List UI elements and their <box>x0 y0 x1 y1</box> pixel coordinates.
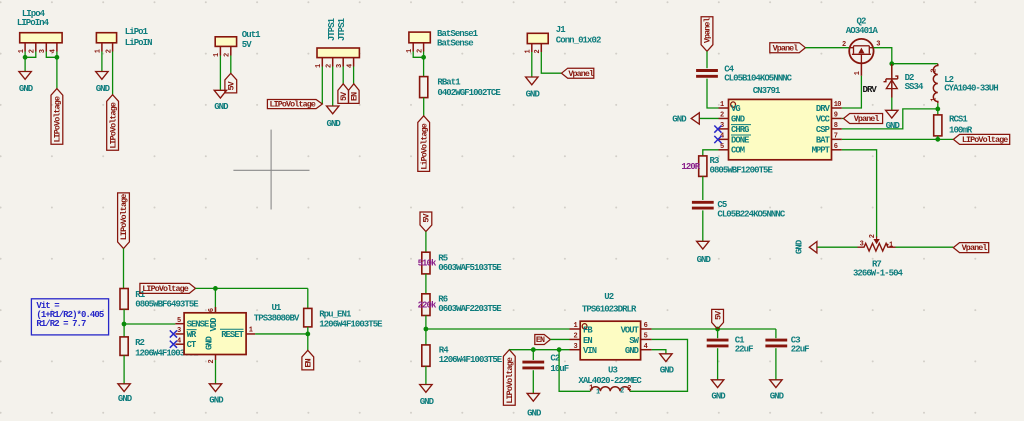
wire JTPS1 pin1 to LIPoVoltage <box>321 67 323 105</box>
cursor crosshair <box>270 130 272 210</box>
svg-text:GND: GND <box>672 114 687 124</box>
ic CN3791 left pins <box>719 107 729 109</box>
svg-text:R4: R4 <box>439 345 449 355</box>
svg-text:3: 3 <box>860 241 864 249</box>
svg-text:CHRG: CHRG <box>731 125 749 135</box>
resistor R4 <box>422 345 430 366</box>
ic U2 left pins <box>570 328 581 330</box>
resistor R2 <box>120 337 128 356</box>
wire Rpu_EN1 to EN label <box>307 327 309 350</box>
svg-text:GND: GND <box>711 391 726 401</box>
svg-text:Vpanel: Vpanel <box>854 114 880 124</box>
connector JTPS1 pins <box>321 58 323 67</box>
wire C1 to GND <box>717 348 719 380</box>
svg-text:22uF: 22uF <box>791 345 809 355</box>
svg-text:6: 6 <box>208 308 216 312</box>
svg-text:GND: GND <box>660 365 675 375</box>
wire C3 to GND <box>775 348 777 380</box>
wire CSP sense <box>842 109 938 129</box>
wire EN to U2 <box>550 338 569 340</box>
wire Vpanel to C4 <box>706 51 708 68</box>
net label EN (JTPS1) <box>349 84 360 104</box>
connector BatSense1 pins <box>412 43 414 52</box>
svg-text:C5: C5 <box>717 200 726 210</box>
svg-text:0603WAF5103T5E: 0603WAF5103T5E <box>438 263 502 273</box>
svg-text:Conn_01x02: Conn_01x02 <box>556 36 601 46</box>
capacitor C4 <box>696 69 718 72</box>
svg-text:GND: GND <box>731 114 745 124</box>
wire VIN node <box>509 349 569 351</box>
wire JTPS1 pin3 to 5V <box>342 67 344 84</box>
svg-text:120R: 120R <box>681 162 700 172</box>
svg-text:LIPoVoltage: LIPoVoltage <box>142 284 188 294</box>
connector BatSense1 body <box>409 32 430 43</box>
inductor L2 <box>933 64 938 104</box>
svg-text:U1: U1 <box>271 303 281 313</box>
svg-text:GND: GND <box>420 397 435 407</box>
svg-text:LiPoIN: LiPoIN <box>125 38 152 48</box>
svg-text:4: 4 <box>644 343 648 351</box>
capacitor C1 <box>707 339 729 342</box>
svg-text:R1/R2 = 7.7: R1/R2 = 7.7 <box>36 319 86 329</box>
svg-text:10: 10 <box>834 101 841 109</box>
net label Vpanel (R7) <box>953 243 988 253</box>
svg-text:3: 3 <box>574 343 578 351</box>
junction EN node <box>305 332 310 337</box>
no-connect U1 WR <box>170 330 177 337</box>
ground C1 <box>711 380 723 388</box>
connector LiPo1 pins <box>101 43 103 52</box>
wire C2 to GND <box>532 370 534 393</box>
junction VOUT/C1 <box>715 327 720 332</box>
svg-text:Vpanel: Vpanel <box>568 69 594 79</box>
svg-text:GND: GND <box>205 336 215 350</box>
connector J1 pins <box>531 44 533 52</box>
net label 5V (Out1) <box>225 73 237 93</box>
junction RCS1/BAT <box>935 137 940 142</box>
resistor R5 <box>422 252 430 274</box>
wire C1 tap <box>717 329 719 338</box>
no-connect CHRG <box>714 126 721 133</box>
svg-text:2: 2 <box>627 385 631 393</box>
svg-text:JTPS1: JTPS1 <box>327 17 337 41</box>
wire U2 GND pin to ground <box>652 350 666 354</box>
net label LiPoVoltage (RBat1) <box>418 116 430 172</box>
wire FB node to U2 FB <box>426 328 570 330</box>
ic U1 body <box>184 313 246 355</box>
svg-text:6: 6 <box>834 143 838 151</box>
svg-text:0603WAF2203T5E: 0603WAF2203T5E <box>438 304 502 314</box>
net label LIPoVoltage (LIpo4) <box>51 89 63 145</box>
svg-text:R5: R5 <box>438 253 447 263</box>
svg-text:Q2: Q2 <box>857 17 866 27</box>
net label LIPoVoltage (BAT) <box>953 134 1009 144</box>
svg-text:XAL4020-222MEC: XAL4020-222MEC <box>578 376 642 386</box>
resistor RCS1 <box>934 115 942 136</box>
svg-text:DRV: DRV <box>816 104 831 114</box>
svg-text:EN: EN <box>536 335 545 345</box>
svg-text:CN3791: CN3791 <box>753 86 781 96</box>
wire R2 to GND <box>123 355 125 383</box>
net label Vpanel (C4 input) <box>701 17 713 52</box>
svg-text:GND: GND <box>209 396 224 406</box>
wire 5V to R5 <box>425 232 427 253</box>
svg-text:1: 1 <box>854 71 862 75</box>
wire RCS1 to BAT node <box>937 136 939 139</box>
no-connect DONE <box>714 136 721 143</box>
svg-text:5: 5 <box>644 333 648 341</box>
svg-text:4: 4 <box>177 337 181 345</box>
svg-text:5V: 5V <box>242 40 252 50</box>
wire LIPoVoltage to VDD and Rpu_EN1 <box>196 287 308 289</box>
wire SW loop <box>630 339 688 391</box>
svg-text:0805WBF6493T5E: 0805WBF6493T5E <box>135 299 199 309</box>
ic U1 RESET pin <box>246 333 255 335</box>
svg-text:EN: EN <box>350 92 360 101</box>
wire C5 to GND <box>702 210 704 241</box>
svg-text:1: 1 <box>574 322 578 330</box>
svg-text:DRV: DRV <box>863 85 878 95</box>
net label 5V (VOUT) <box>712 309 724 329</box>
wire R3 to C5 <box>702 176 704 200</box>
svg-text:0805WBF1200T5E: 0805WBF1200T5E <box>710 166 774 176</box>
connector J1 body <box>527 33 548 43</box>
svg-text:RESET: RESET <box>221 330 244 340</box>
connector LIpo4 body <box>20 33 62 43</box>
svg-text:5: 5 <box>720 143 724 151</box>
resistor RBat1 <box>420 77 428 98</box>
svg-text:EN: EN <box>304 358 314 367</box>
svg-text:6: 6 <box>644 322 648 330</box>
ground R2 <box>118 384 130 392</box>
svg-text:GND: GND <box>526 89 541 99</box>
svg-text:MPPT: MPPT <box>812 146 831 156</box>
svg-text:22uF: 22uF <box>735 345 753 355</box>
wire R7 pin3 to GND flag <box>817 246 858 248</box>
ic CN3791 right pins <box>832 107 842 109</box>
svg-text:EN: EN <box>583 336 592 346</box>
svg-text:Rpu_EN1: Rpu_EN1 <box>319 309 352 319</box>
wire LiPo1 pin2 to LIPoVoltage <box>112 52 114 95</box>
Q2 gate pin <box>860 63 862 76</box>
wire RESET to EN node <box>255 333 308 335</box>
wire J1 pin1 to GND <box>531 52 533 77</box>
resistor Rpu_EN1 <box>307 288 309 308</box>
net label 5V (JTPS1) <box>338 84 349 104</box>
svg-text:R3: R3 <box>710 156 719 166</box>
svg-text:GND: GND <box>118 394 133 404</box>
wire C4 to U4 pin1 VG <box>707 79 719 108</box>
svg-text:JTPS1: JTPS1 <box>337 17 347 41</box>
capacitor C2 <box>522 361 544 364</box>
svg-text:RBat1: RBat1 <box>437 78 461 88</box>
wire U3 to VIN <box>559 350 590 392</box>
ground Out1 <box>214 90 226 98</box>
ground flag R7 <box>809 242 817 253</box>
svg-text:SS34: SS34 <box>905 82 924 92</box>
junction L2/RCS1/CSP <box>935 107 940 112</box>
connector Out1 pins <box>219 46 221 55</box>
resistor R1 <box>120 289 128 310</box>
svg-text:COM: COM <box>731 146 745 156</box>
no-connect U1 CT <box>170 341 177 348</box>
inductor U3 <box>591 387 630 392</box>
wire LIpo4 pin3/pin4 to LIPoVoltage <box>46 52 57 58</box>
ground U1 <box>209 384 221 392</box>
svg-text:1206W4F1003T5E: 1206W4F1003T5E <box>319 319 383 329</box>
wire JTPS1 pin4 to EN <box>353 67 355 84</box>
svg-text:2: 2 <box>930 69 938 73</box>
svg-text:CL05B104KO5NNNC: CL05B104KO5NNNC <box>724 74 792 84</box>
svg-text:J1: J1 <box>556 25 566 35</box>
svg-text:GND: GND <box>795 239 805 254</box>
svg-text:R2: R2 <box>135 338 144 348</box>
wire C2 tap down <box>532 350 534 360</box>
svg-text:GND: GND <box>770 391 785 401</box>
ic CN3791 body <box>729 99 832 159</box>
svg-text:8: 8 <box>834 122 838 130</box>
net label Vpanel (J1) <box>562 68 594 78</box>
ground LIpo4 <box>19 72 31 80</box>
svg-text:1: 1 <box>889 241 893 249</box>
note box Vit formula <box>31 299 108 335</box>
wire Out1 pin1 to GND <box>219 56 221 91</box>
ic U1 left pins <box>175 323 184 325</box>
svg-text:1206W4F1003T5E: 1206W4F1003T5E <box>439 355 503 365</box>
svg-text:3266W-1-504: 3266W-1-504 <box>853 268 904 278</box>
ground C3 <box>770 380 782 388</box>
junction BatSense1 <box>421 55 426 60</box>
svg-text:510k: 510k <box>418 259 437 269</box>
svg-text:GND: GND <box>19 84 34 94</box>
wire Q2 gate to DRV <box>842 76 862 108</box>
svg-text:CSP: CSP <box>816 125 830 135</box>
ground J1 <box>526 77 538 85</box>
wire R1 to R2 <box>123 309 125 337</box>
ic U1 VDD pin <box>215 307 217 313</box>
transistor Q2 body <box>849 39 873 63</box>
wire LiPo1 pin1 to GND <box>101 52 103 72</box>
ic U1 GND pin <box>215 355 217 361</box>
svg-text:1: 1 <box>930 98 938 102</box>
svg-text:2: 2 <box>842 41 846 49</box>
junction Q2 drain node <box>889 61 894 66</box>
net label LIPoVoltage (LiPo1) <box>107 95 119 151</box>
svg-text:2: 2 <box>574 333 578 341</box>
connector JTPS1 body <box>317 48 359 58</box>
junction FB node <box>424 327 429 332</box>
ground JTPS1 <box>327 106 339 114</box>
svg-text:C2: C2 <box>550 354 559 364</box>
wire D2 to GND <box>891 98 893 111</box>
wire LIPoVoltage to R1 <box>123 249 126 289</box>
svg-text:TPS38080BV: TPS38080BV <box>254 314 300 324</box>
connector LiPo1 body <box>96 33 116 43</box>
svg-text:LIPoVoltage: LIPoVoltage <box>962 135 1008 145</box>
svg-text:7: 7 <box>834 133 838 141</box>
svg-text:VCC: VCC <box>816 114 831 124</box>
net label LIPoVoltage (JTPS1) <box>267 100 322 109</box>
wire R5 to R6 <box>425 274 427 294</box>
svg-text:9: 9 <box>834 112 838 120</box>
wire J1 pin2 to Vpanel <box>541 52 561 73</box>
ground D2 <box>886 110 898 118</box>
connector Out1 body <box>215 37 236 47</box>
capacitor C3 <box>765 339 787 342</box>
ic U2 body <box>580 321 640 360</box>
ground C2 <box>527 393 539 401</box>
connector LIpo4 pins <box>24 43 26 52</box>
svg-text:LIPoVoltage: LIPoVoltage <box>269 100 315 110</box>
svg-text:2: 2 <box>208 360 216 364</box>
wire C3 tap <box>775 329 777 338</box>
svg-text:GND: GND <box>697 255 712 265</box>
wire LIpo4 pin1/pin2 to GND <box>24 52 26 72</box>
svg-text:DONE: DONE <box>731 135 749 145</box>
capacitor C5 <box>692 201 714 204</box>
net label EN (U1) <box>302 350 314 370</box>
wire Q2 node to L2 <box>892 63 938 65</box>
svg-text:3: 3 <box>177 327 181 335</box>
svg-text:R6: R6 <box>438 294 447 304</box>
diode D2 <box>891 64 893 98</box>
ic U2 right pins <box>641 328 652 330</box>
svg-text:LiPoVoltage: LiPoVoltage <box>419 123 429 169</box>
wire Vpanel to Q2 pin2 <box>805 47 849 49</box>
wire COM to R3 <box>703 150 719 156</box>
wire BatSense1 pins to RBat1 <box>413 52 423 58</box>
svg-text:1: 1 <box>720 101 724 109</box>
svg-text:2: 2 <box>720 112 724 120</box>
svg-text:GND: GND <box>327 119 342 129</box>
net label 5V (divider) <box>420 212 432 232</box>
net label EN (U2) <box>535 335 551 345</box>
svg-text:GND: GND <box>96 84 111 94</box>
svg-text:LIPoVoltage: LIPoVoltage <box>505 357 515 403</box>
ground R4 <box>420 385 432 393</box>
junction divider <box>122 322 127 327</box>
wire MPPT to R7 wiper <box>842 150 877 238</box>
net label Vpanel (Q2 source) <box>770 43 806 53</box>
svg-text:Vpanel: Vpanel <box>962 243 988 253</box>
svg-text:CYA1040-33UH: CYA1040-33UH <box>944 84 998 94</box>
ground U2 <box>660 354 672 362</box>
svg-text:VIN: VIN <box>583 346 597 356</box>
svg-text:SENSE: SENSE <box>187 320 209 330</box>
junction at LIpo4 pins 1-2 <box>23 55 28 60</box>
resistor R3 <box>699 156 707 177</box>
svg-text:LIPoVoltage: LIPoVoltage <box>119 194 129 240</box>
wire Out1 pin2 to 5V <box>230 56 232 74</box>
svg-text:BatSense: BatSense <box>437 39 473 49</box>
junction L feed <box>557 347 562 352</box>
svg-text:GND: GND <box>527 409 542 419</box>
junction C2 tap <box>531 347 536 352</box>
wire U1 GND to ground <box>215 360 217 384</box>
svg-text:VOUT: VOUT <box>621 325 640 335</box>
svg-text:BatSense1: BatSense1 <box>437 29 479 39</box>
svg-text:RCS1: RCS1 <box>949 114 968 124</box>
junction at LIpo4 pins 3-4 <box>55 55 60 60</box>
svg-text:BAT: BAT <box>816 135 831 145</box>
svg-text:GND: GND <box>625 346 639 356</box>
svg-text:U2: U2 <box>604 292 613 302</box>
svg-text:Vpanel: Vpanel <box>773 43 799 53</box>
junction VDD <box>213 286 218 291</box>
wire JTPS1 pin2 to GND <box>332 67 334 107</box>
svg-text:U3: U3 <box>608 366 617 376</box>
wire RBat1 to LiPoVoltage <box>423 98 425 116</box>
svg-text:2: 2 <box>869 234 877 238</box>
ground C5 <box>697 241 709 249</box>
wire divider to SENSE <box>124 323 175 325</box>
svg-text:220k: 220k <box>418 301 437 311</box>
svg-text:LIPoVoltage: LIPoVoltage <box>108 102 118 148</box>
net label LIPoVoltage (divider top) <box>118 193 130 249</box>
ground flag GND pin2 CN3791 <box>699 117 718 119</box>
svg-text:CL05B224KO5NNNC: CL05B224KO5NNNC <box>717 210 785 220</box>
svg-text:VG: VG <box>731 104 740 114</box>
svg-text:LiPo1: LiPo1 <box>125 27 149 37</box>
wire R4 to GND <box>425 366 427 384</box>
svg-text:2: 2 <box>620 387 624 395</box>
svg-text:VDD: VDD <box>209 318 219 332</box>
net label Vpanel (VCC) <box>842 117 844 119</box>
svg-text:0402WGF1002TCE: 0402WGF1002TCE <box>437 88 501 98</box>
svg-text:GND: GND <box>214 102 229 112</box>
ground LiPo1 <box>96 72 108 80</box>
resistor R6 <box>422 294 430 316</box>
wire L2 to RCS1 node <box>937 103 939 115</box>
wire R7 pin1 to Vpanel <box>896 246 954 248</box>
svg-text:LIPoIn4: LIPoIn4 <box>17 18 50 28</box>
svg-text:Vpanel: Vpanel <box>703 17 713 43</box>
svg-text:5: 5 <box>177 317 181 325</box>
svg-text:Out1: Out1 <box>242 30 261 40</box>
net label LIPoVoltage (U2 VIN) <box>503 350 515 406</box>
wire BAT to LiPoVoltage <box>842 138 954 140</box>
wire R6 to FB node <box>425 316 427 345</box>
svg-text:AO3401A: AO3401A <box>846 26 879 36</box>
wire VOUT to 5V <box>652 328 776 330</box>
svg-text:TPS61023DRLR: TPS61023DRLR <box>582 304 637 314</box>
svg-text:1: 1 <box>596 389 600 397</box>
svg-text:1: 1 <box>249 327 253 335</box>
net label LIPoVoltage (U1 VDD) <box>140 283 196 293</box>
svg-text:LIPoVoltage: LIPoVoltage <box>53 96 63 142</box>
